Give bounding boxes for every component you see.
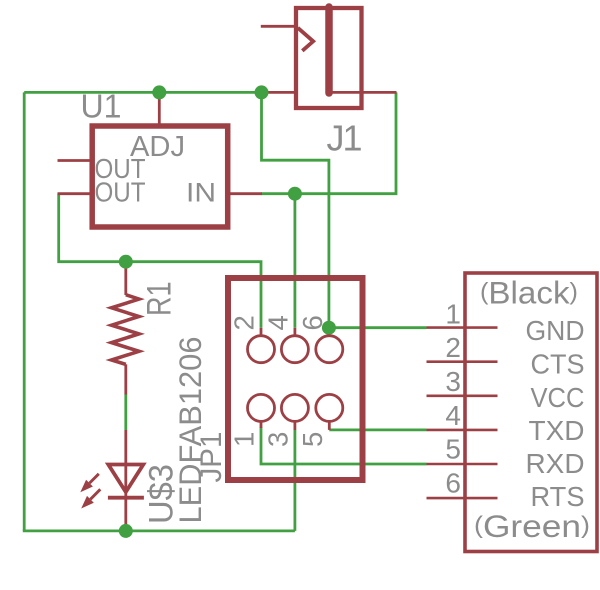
pin J1 sleeve — [261, 91, 297, 94]
LED U$3 triangle — [108, 465, 143, 493]
svg-text:GND: GND — [526, 315, 585, 346]
header JP1 pad 2 circle — [248, 336, 275, 363]
wire pad1 to RXD pin — [261, 427, 427, 464]
svg-text:LEDFAB1206: LEDFAB1206 — [172, 337, 208, 524]
pin U1 IN — [228, 192, 262, 195]
power jack J1 center pin bar — [325, 7, 333, 93]
svg-text:(Green): (Green) — [474, 508, 590, 544]
svg-text:1: 1 — [229, 432, 260, 447]
header JP1 pad 1 circle — [248, 394, 275, 421]
junction node at IN wire — [288, 187, 302, 201]
pin connector 3 VCC — [427, 394, 498, 397]
svg-text:5: 5 — [297, 432, 328, 447]
svg-text:J1: J1 — [327, 118, 362, 159]
pin connector 6 RTS — [427, 497, 498, 500]
wire R1 bottom to LED anode — [124, 394, 127, 430]
junction node at R1 top — [119, 255, 133, 269]
svg-text:5: 5 — [445, 434, 461, 465]
wire IN junction to pad4 — [293, 194, 296, 328]
svg-text:VCC: VCC — [531, 382, 585, 413]
svg-text:4: 4 — [445, 400, 461, 431]
LED U$3 emission arrow 2 — [81, 489, 100, 508]
svg-text:CTS: CTS — [531, 349, 585, 380]
header JP1 pad 4 circle — [281, 336, 308, 363]
svg-text:1: 1 — [445, 298, 461, 329]
header JP1 box — [228, 278, 363, 480]
pin JP1 pad4 stub — [293, 328, 296, 337]
resistor R1 zigzag — [112, 295, 140, 365]
junction node at jack sleeve — [255, 85, 269, 99]
svg-text:RTS: RTS — [531, 481, 585, 512]
pin U1 OUT upper stub — [58, 159, 93, 162]
pin JP1 pad6 stub — [327, 328, 330, 337]
header JP1 pad 6 circle — [316, 336, 343, 363]
pin R1 bottom lead — [124, 364, 127, 394]
pin LED vertical through symbol — [124, 430, 127, 531]
svg-text:6: 6 — [445, 468, 461, 499]
wire pad3 vertical to bottom rail — [293, 430, 296, 531]
svg-text:2: 2 — [229, 315, 260, 330]
header JP1 pad 3 circle — [281, 394, 308, 421]
pin J1 switch stub — [261, 25, 296, 28]
header JP1 pad 5 circle — [316, 394, 343, 421]
LED U$3 cathode bar — [108, 496, 144, 500]
svg-text:3: 3 — [445, 366, 461, 397]
svg-text:4: 4 — [262, 315, 293, 330]
svg-text:(Black): (Black) — [480, 275, 578, 311]
power jack J1 body — [296, 8, 362, 108]
pin JP1 pad2 stub — [260, 328, 263, 337]
pin R1 top — [124, 262, 127, 295]
pin connector 2 CTS — [427, 360, 498, 363]
wire jack tip to IN — [261, 92, 396, 193]
svg-text:JP1: JP1 — [195, 432, 228, 483]
pin JP1 pad3 stub — [293, 421, 296, 430]
wire pad6 to GND pin — [329, 326, 427, 329]
svg-text:RXD: RXD — [526, 448, 585, 479]
wire pad5 to TXD pin — [329, 428, 426, 431]
svg-text:3: 3 — [262, 432, 293, 447]
svg-text:U1: U1 — [81, 89, 122, 126]
regulator U1 box — [92, 126, 228, 227]
power jack J1 switch contact — [298, 28, 313, 51]
wire net ADJ left rail vertical — [23, 92, 26, 531]
connector X1 box — [465, 273, 597, 552]
svg-text:IN: IN — [186, 178, 216, 208]
svg-text:6: 6 — [297, 315, 328, 330]
pin JP1 pad5 stub — [328, 421, 331, 430]
LED U$3 emission arrow 1 — [80, 474, 99, 493]
pin U1 OUT lower — [58, 192, 93, 195]
pin U1 ADJ — [158, 92, 161, 126]
pin connector 4 TXD — [427, 429, 498, 432]
pin J1 tip — [332, 91, 397, 94]
junction node at LED cathode — [119, 524, 133, 538]
svg-text:2: 2 — [445, 332, 461, 363]
svg-text:TXD: TXD — [529, 415, 585, 446]
pin connector 1 GND — [427, 326, 498, 329]
svg-text:R1: R1 — [141, 282, 179, 317]
pin connector 5 RXD — [427, 463, 498, 466]
junction node at ADJ — [152, 85, 166, 99]
svg-text:OUT: OUT — [95, 176, 146, 207]
wire net ADJ left rail horizontal — [24, 91, 261, 94]
wire net ADJ bottom horizontal — [23, 530, 295, 533]
wire jack sleeve to pad6 — [262, 92, 329, 327]
junction node at pad6 — [322, 321, 336, 335]
pin JP1 pad1 stub — [260, 421, 263, 428]
wire OUT to R1 and pad2 — [59, 194, 261, 328]
